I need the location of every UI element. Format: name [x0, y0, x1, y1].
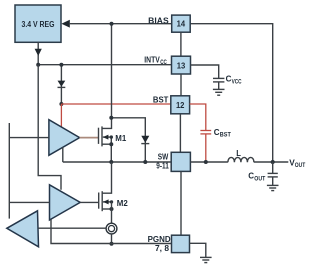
node junction on BIAS line: [110, 22, 114, 26]
svg-text:SW: SW: [158, 153, 169, 162]
node junction D2 on SW: [143, 160, 147, 164]
svg-text:9-11: 9-11: [156, 161, 169, 170]
node junction on PGND rail: [110, 242, 114, 246]
transistor M2: [99, 191, 129, 211]
svg-text:CC: CC: [160, 60, 167, 66]
svg-text:14: 14: [177, 20, 186, 29]
wire input to driver U3: [9, 201, 49, 203]
svg-text:BST: BST: [220, 133, 231, 139]
current sense circle: [106, 223, 117, 234]
node junction CBST on SW: [204, 160, 208, 164]
wire bootstrap diode branch: [60, 65, 62, 104]
node junction VOUT: [271, 160, 275, 164]
wire driver U2 return to SW: [62, 147, 64, 162]
wire BST red right to CBST: [190, 104, 206, 130]
ground under CVCC: [213, 89, 225, 95]
wire diode D2 branch: [111, 118, 145, 162]
wire M1 drain from BIAS rail: [102, 24, 112, 129]
wire chain 12-SW: [179, 114, 181, 153]
wire U2 output to M1 gate (salmon): [80, 137, 99, 139]
pin box SW: [171, 152, 190, 171]
diode D2: [141, 136, 149, 144]
node junction diode branch: [59, 63, 63, 67]
driver U2 triangle (top gate driver): [49, 120, 80, 156]
wire chain 14-13: [180, 32, 182, 56]
pin box PGND: [172, 235, 190, 252]
wire chain SW-PGND: [180, 171, 182, 235]
svg-text:L: L: [236, 149, 241, 158]
wire SW to inductor: [190, 161, 228, 163]
wire inductor to VOUT: [254, 161, 288, 163]
svg-text:3.4 V REG: 3.4 V REG: [22, 20, 55, 29]
svg-text:M1: M1: [115, 134, 127, 143]
wire U3 output to M2 gate: [80, 201, 99, 203]
wire BIAS left segment: [70, 23, 172, 25]
wire pin13 to CVCC: [191, 65, 219, 78]
ground under COUT: [267, 185, 279, 190]
wire BST red rail to pin 12: [61, 103, 170, 105]
svg-text:VCC: VCC: [232, 79, 243, 85]
wire BIAS right segment and right-side vertical to VOUT node: [190, 24, 273, 162]
wire M2 drain: [102, 162, 111, 193]
wire input to driver U2: [9, 137, 49, 139]
svg-text:M2: M2: [117, 199, 129, 208]
wire sense to PGND rail: [111, 234, 113, 244]
wire driver U3 return and PGND rail: [51, 220, 172, 244]
svg-text:7, 8: 7, 8: [155, 244, 170, 253]
node junction REG output: [36, 63, 40, 67]
wire SW rail left of pin box: [63, 161, 171, 163]
svg-text:OUT: OUT: [254, 176, 265, 182]
pin box 12 BST: [171, 96, 190, 114]
wire left input bus vertical: [8, 123, 10, 219]
svg-text:PGND: PGND: [148, 235, 171, 244]
svg-text:BIAS: BIAS: [148, 16, 169, 25]
capacitor CVCC: [213, 75, 242, 90]
wire chain 13-12: [180, 74, 182, 96]
capacitor COUT: [248, 162, 277, 185]
regulator 3.4 V REG U1: [15, 5, 61, 42]
transistor M1: [99, 126, 127, 162]
svg-text:13: 13: [177, 61, 186, 70]
ground PGND: [200, 257, 212, 262]
wire supply to driver 2 (L path): [38, 65, 61, 190]
arrow into 3.4V REG: [61, 20, 69, 28]
driver U3 triangle (bottom gate driver): [50, 185, 81, 220]
diode D1 bootstrap: [58, 81, 66, 88]
svg-text:BST: BST: [153, 95, 169, 104]
wire PGND to ground: [190, 243, 206, 257]
pin box 14 BIAS: [172, 15, 191, 32]
svg-text:12: 12: [176, 101, 185, 110]
node junction drain/diode: [109, 116, 113, 120]
wire INTVCC rail horizontal: [38, 64, 171, 66]
svg-text:OUT: OUT: [295, 163, 306, 169]
wire M2 source down to sense: [111, 202, 113, 223]
capacitor CBST (red): [200, 128, 231, 162]
node junction M1 source on SW: [109, 160, 113, 164]
arrowhead REG output: [35, 49, 42, 56]
pin box 13 INTVCC: [172, 56, 191, 74]
inductor L: [228, 157, 254, 162]
wire REG output down: [37, 42, 39, 64]
node junction BST net left: [59, 102, 63, 106]
svg-text:INTV: INTV: [144, 55, 160, 64]
wire U4 input from sense: [38, 227, 106, 229]
wire BST red drop to driver 1 supply: [60, 104, 62, 127]
inverter U4 triangle (left pointing): [7, 211, 39, 247]
